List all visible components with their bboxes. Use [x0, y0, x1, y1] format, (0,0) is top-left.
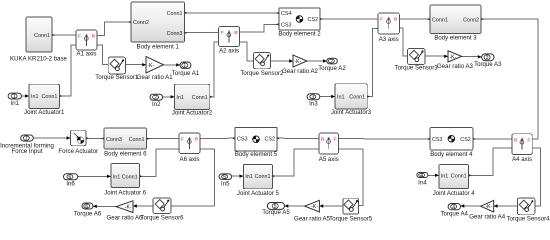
svg-text:Conn1: Conn1 — [122, 174, 138, 180]
wire Joint Actuator2 Conn1 to A2 axis — [210, 42, 219, 97]
svg-text:In1: In1 — [245, 174, 253, 180]
svg-text:CS3: CS3 — [281, 22, 292, 28]
joint A3 axis — [378, 13, 399, 43]
svg-text:Torque A4: Torque A4 — [440, 210, 468, 217]
svg-text:Gear ratio A5: Gear ratio A5 — [294, 216, 331, 223]
svg-text:Conn1: Conn1 — [34, 33, 50, 39]
svg-text:Torque Sensor4: Torque Sensor4 — [506, 216, 550, 223]
svg-text:4: 4 — [420, 173, 423, 179]
wire A1 axis B to Body element 1 Conn2 — [97, 22, 131, 35]
subsystem Body element 6 — [104, 128, 147, 158]
port marker Body element 5 CS3 — [232, 137, 235, 140]
port marker Body element 2 CS2 — [320, 18, 323, 21]
wire Joint Actuator 4 Conn1 to A4 axis — [469, 148, 512, 175]
joint A2 axis — [219, 27, 240, 55]
svg-text:Gear ratio A6: Gear ratio A6 — [107, 215, 144, 222]
wire Torque Sensor2 to Gear ratio A2 — [271, 59, 294, 62]
svg-text:Body element 1: Body element 1 — [137, 43, 180, 50]
wire In5 to Joint Actuator 5 — [232, 174, 244, 177]
svg-text:Gear ratio A2: Gear ratio A2 — [282, 68, 319, 75]
svg-text:Joint Actuator 5: Joint Actuator 5 — [237, 190, 280, 197]
svg-text:F: F — [380, 17, 383, 22]
svg-text:Joint Actuator3: Joint Actuator3 — [331, 109, 372, 116]
svg-text:F: F — [527, 137, 530, 142]
wire Gear ratio A6 to Torque A6 — [93, 205, 116, 208]
svg-text:Joint Actuator 6: Joint Actuator 6 — [104, 189, 147, 196]
wire Joint Actuator 5 Conn1 to A5 axis — [273, 149, 320, 176]
port marker Body element 4 CS2 — [473, 138, 476, 141]
svg-text:Conn3: Conn3 — [167, 31, 183, 37]
wire Force Actuator to Body element 6 Conn3 — [86, 137, 104, 139]
port marker Body element 6 Conn3 — [101, 137, 104, 140]
svg-text:-K-: -K- — [450, 54, 457, 60]
svg-text:Conn1: Conn1 — [349, 95, 365, 101]
wire Gear ratio A1 to Torque A1 — [164, 63, 181, 66]
svg-text:Conn1: Conn1 — [451, 173, 467, 179]
joint A6 axis — [179, 133, 200, 163]
inport In6 — [64, 174, 78, 188]
gain Gear ratio A2 — [282, 55, 319, 75]
svg-text:7: 7 — [25, 136, 28, 142]
svg-text:Joint Actuator1: Joint Actuator1 — [24, 109, 65, 116]
subsystem Body element 3 — [430, 5, 481, 41]
svg-text:In1: In1 — [441, 173, 449, 179]
joint A5 axis — [319, 133, 339, 163]
subsystem Joint Actuator 4 — [433, 165, 476, 198]
body Body element 4 — [430, 128, 473, 158]
svg-text:F: F — [334, 137, 337, 142]
wire Body element 3 Conn2 to A4 axis F — [481, 19, 538, 139]
outport Torque A2 — [318, 58, 346, 72]
wire Gear ratio A3 to Torque A3 — [462, 55, 482, 58]
subsystem Joint Actuator 5 — [237, 164, 280, 196]
wire A2 axis B to Body element 2 CS3 — [240, 24, 279, 32]
svg-text:A2 axis: A2 axis — [219, 48, 239, 55]
wire A5 axis to Torque Sensor5 — [339, 149, 364, 206]
sensor Torque Sensor1 — [95, 57, 139, 81]
subsystem Joint Actuator2 — [172, 84, 213, 116]
svg-text:Torque Sensor1: Torque Sensor1 — [95, 74, 139, 81]
subsystem Body element 1 — [131, 2, 185, 50]
gain Gear ratio A5 — [294, 200, 331, 222]
sensor Torque Sensor3 — [395, 49, 439, 72]
inport In4 — [417, 173, 428, 187]
inport In1 — [8, 93, 21, 107]
svg-text:Gear ratio A1: Gear ratio A1 — [137, 74, 174, 81]
svg-text:In6: In6 — [66, 180, 75, 187]
subsystem KUKA KR210-2 base — [10, 17, 68, 63]
wire In6 to Joint Actuator 6 — [78, 175, 111, 178]
svg-text:In1: In1 — [176, 95, 184, 101]
svg-text:Torque A1: Torque A1 — [172, 70, 200, 77]
svg-text:A6 axis: A6 axis — [180, 156, 200, 163]
joint A4 axis — [512, 134, 532, 163]
body Body element 5 — [235, 128, 278, 158]
wire KUKA base Conn1 to A1 axis — [52, 34, 76, 36]
port marker KUKA Conn1 — [52, 34, 55, 37]
svg-text:-K-: -K- — [125, 205, 132, 211]
svg-text:Torque Sensor2: Torque Sensor2 — [240, 70, 284, 77]
wire Torque Sensor6 to Gear ratio A6 — [133, 204, 153, 207]
wire Body element 1 Conn3 to A2 axis — [185, 32, 219, 34]
svg-text:Conn1: Conn1 — [42, 94, 58, 100]
port marker Body element 1 Conn1 — [185, 12, 188, 15]
svg-text:Conn2: Conn2 — [133, 20, 149, 26]
port marker Body element 1 Conn2 — [128, 21, 131, 24]
outport Torque A6 — [74, 203, 102, 217]
port marker Body element 2 CS3 — [276, 23, 279, 26]
svg-text:F: F — [78, 34, 81, 39]
gain Gear ratio A1 — [137, 57, 174, 82]
svg-text:In2: In2 — [152, 101, 161, 108]
svg-text:Conn1: Conn1 — [129, 137, 145, 143]
port marker Joint Actuator2 Conn1 — [210, 96, 213, 99]
svg-text:Torque Sensor6: Torque Sensor6 — [140, 215, 184, 222]
inport In3 — [307, 94, 320, 108]
svg-text:F: F — [181, 137, 184, 142]
svg-text:In3: In3 — [309, 101, 318, 108]
svg-text:Conn1: Conn1 — [432, 17, 448, 23]
port marker Force Actuator output — [86, 137, 89, 140]
svg-text:-K-: -K- — [148, 63, 155, 69]
svg-text:A3 axis: A3 axis — [379, 36, 399, 43]
wire Body element 2 CS2 to A3 axis F — [320, 18, 378, 20]
port marker Body element 4 CS3 — [427, 138, 430, 141]
outport Torque A4 — [440, 204, 468, 218]
svg-text:CS2: CS2 — [308, 17, 319, 23]
gain Gear ratio A6 — [107, 201, 144, 222]
port marker Body element 6 Conn1 — [147, 137, 150, 140]
port marker Body element 3 Conn2 — [481, 18, 484, 21]
wire A3 axis to Torque Sensor3 — [399, 28, 407, 56]
svg-text:1: 1 — [183, 63, 186, 69]
wire Gear ratio A4 to Torque A4 — [461, 204, 481, 207]
wire A3 axis B to Body element 3 Conn1 — [399, 18, 430, 20]
svg-text:A1 axis: A1 axis — [77, 51, 97, 58]
actuator Force Actuator — [58, 130, 98, 155]
inport In5 — [219, 174, 232, 188]
svg-text:Torque A6: Torque A6 — [74, 210, 102, 217]
wire Body element 1 Conn1 to Body element 2 CS4 — [185, 12, 280, 14]
svg-text:In5: In5 — [221, 181, 230, 188]
port marker Joint Actuator1 Conn1 — [60, 95, 63, 98]
wire A4 axis to Torque Sensor4 — [532, 148, 540, 206]
wire In3 to Joint Actuator3 — [320, 95, 335, 98]
svg-text:Conn2: Conn2 — [463, 17, 479, 23]
wire Gear ratio A2 to Torque A2 — [307, 59, 327, 62]
wire Joint Actuator3 Conn1 to A3 axis — [367, 29, 378, 97]
svg-text:Joint Actuator 4: Joint Actuator 4 — [433, 190, 476, 197]
svg-text:F: F — [221, 30, 224, 35]
wire Torque Sensor1 to Gear ratio A1 — [126, 63, 147, 66]
wire Torque Sensor3 to Gear ratio A3 — [425, 55, 448, 58]
inport In2 — [150, 94, 163, 108]
svg-text:CS3: CS3 — [432, 137, 443, 143]
wire Body element 5 CS2 to A5 axis B — [277, 137, 319, 139]
svg-text:CS2: CS2 — [265, 136, 276, 142]
outport Torque A3 — [474, 54, 502, 68]
wire In4 to Joint Actuator 4 — [428, 174, 439, 177]
wire A6 axis to Torque Sensor6 — [171, 149, 215, 206]
subsystem Joint Actuator3 — [331, 84, 372, 116]
svg-text:Force Input: Force Input — [12, 148, 43, 155]
body Body element 2 — [278, 8, 321, 38]
svg-text:CS4: CS4 — [281, 11, 292, 17]
joint A1 axis — [76, 30, 97, 58]
svg-text:A4 axis: A4 axis — [512, 156, 532, 163]
port marker Body element 1 Conn3 — [185, 31, 188, 34]
svg-text:Torque A5: Torque A5 — [262, 209, 290, 216]
svg-text:Body element 3: Body element 3 — [434, 34, 477, 41]
wire Force Input to Force Actuator — [33, 136, 70, 139]
port marker Joint Actuator 6 Conn1 — [140, 175, 143, 178]
wire A5 axis F to Body element 4 CS3 — [339, 138, 431, 140]
svg-text:In4: In4 — [418, 179, 427, 186]
svg-text:Conn3: Conn3 — [106, 137, 122, 143]
port marker Joint Actuator 4 Conn1 — [469, 174, 472, 177]
wire A2 axis to Torque Sensor2 — [240, 42, 254, 61]
svg-text:Gear ratio A4: Gear ratio A4 — [469, 213, 506, 220]
svg-text:Conn1: Conn1 — [192, 95, 208, 101]
wire Body element 4 CS2 to A4 axis B — [473, 138, 512, 140]
svg-text:Torque Sensor3: Torque Sensor3 — [395, 65, 439, 72]
svg-text:Body element 5: Body element 5 — [235, 151, 278, 158]
svg-text:In1: In1 — [11, 100, 20, 107]
svg-text:Gear ratio A3: Gear ratio A3 — [437, 63, 474, 70]
gain Gear ratio A4 — [469, 200, 506, 220]
svg-text:Body element 2: Body element 2 — [278, 31, 321, 38]
svg-text:Torque A2: Torque A2 — [318, 65, 346, 72]
port marker Body element 3 Conn1 — [427, 18, 430, 21]
svg-text:In1: In1 — [337, 95, 345, 101]
svg-text:Torque Sensor5: Torque Sensor5 — [329, 215, 373, 222]
svg-text:Body element 4: Body element 4 — [430, 151, 473, 158]
outport Torque A1 — [172, 62, 200, 77]
subsystem Joint Actuator1 — [24, 84, 65, 116]
wire In2 to Joint Actuator2 — [163, 95, 175, 98]
sensor Torque Sensor5 — [329, 198, 373, 222]
svg-text:CS2: CS2 — [460, 137, 471, 143]
svg-text:In1: In1 — [31, 94, 39, 100]
sensor Torque Sensor6 — [140, 198, 184, 222]
svg-text:-K-: -K- — [486, 204, 493, 210]
wire Body element 6 Conn1 to A6 axis F — [147, 138, 180, 140]
svg-text:Force Actuator: Force Actuator — [58, 148, 98, 155]
port marker Joint Actuator 5 Conn1 — [273, 175, 276, 178]
wire Torque Sensor4 to Gear ratio A4 — [494, 204, 518, 207]
subsystem Joint Actuator 6 — [104, 164, 147, 197]
svg-text:Body element 6: Body element 6 — [104, 151, 147, 158]
sensor Torque Sensor2 — [240, 53, 284, 78]
svg-text:Joint Actuator2: Joint Actuator2 — [172, 109, 213, 116]
wire Joint Actuator1 Conn1 to A1 axis — [60, 45, 77, 96]
svg-text:KUKA KR210-2 base: KUKA KR210-2 base — [10, 56, 68, 63]
outport Torque A5 — [262, 203, 290, 217]
wire In1 to Joint Actuator1 — [22, 94, 30, 97]
svg-text:6: 6 — [85, 204, 88, 210]
wire Gear ratio A5 to Torque A5 — [285, 204, 305, 207]
svg-text:In1: In1 — [113, 174, 121, 180]
inport Incremental forming Force Input — [21, 135, 34, 142]
svg-text:-K-: -K- — [311, 204, 318, 210]
wire A1 axis to Torque Sensor1 — [97, 45, 108, 65]
sensor Torque Sensor4 — [506, 198, 550, 223]
wire Torque Sensor5 to Gear ratio A5 — [319, 204, 342, 207]
svg-text:A5 axis: A5 axis — [319, 156, 339, 163]
port marker Body element 2 CS4 — [276, 12, 279, 15]
svg-text:-K-: -K- — [295, 59, 302, 65]
wire A6 axis B to Body element 5 CS3 — [200, 137, 235, 139]
svg-text:Torque A3: Torque A3 — [474, 61, 502, 68]
port marker Joint Actuator3 Conn1 — [367, 95, 370, 98]
port marker Body element 5 CS2 — [277, 137, 280, 140]
wire Joint Actuator 6 Conn1 to A6 axis — [140, 149, 179, 176]
gain Gear ratio A3 — [437, 51, 474, 70]
svg-text:CS3: CS3 — [237, 136, 248, 142]
svg-text:Conn1: Conn1 — [255, 174, 271, 180]
svg-text:Conn1: Conn1 — [167, 11, 183, 17]
